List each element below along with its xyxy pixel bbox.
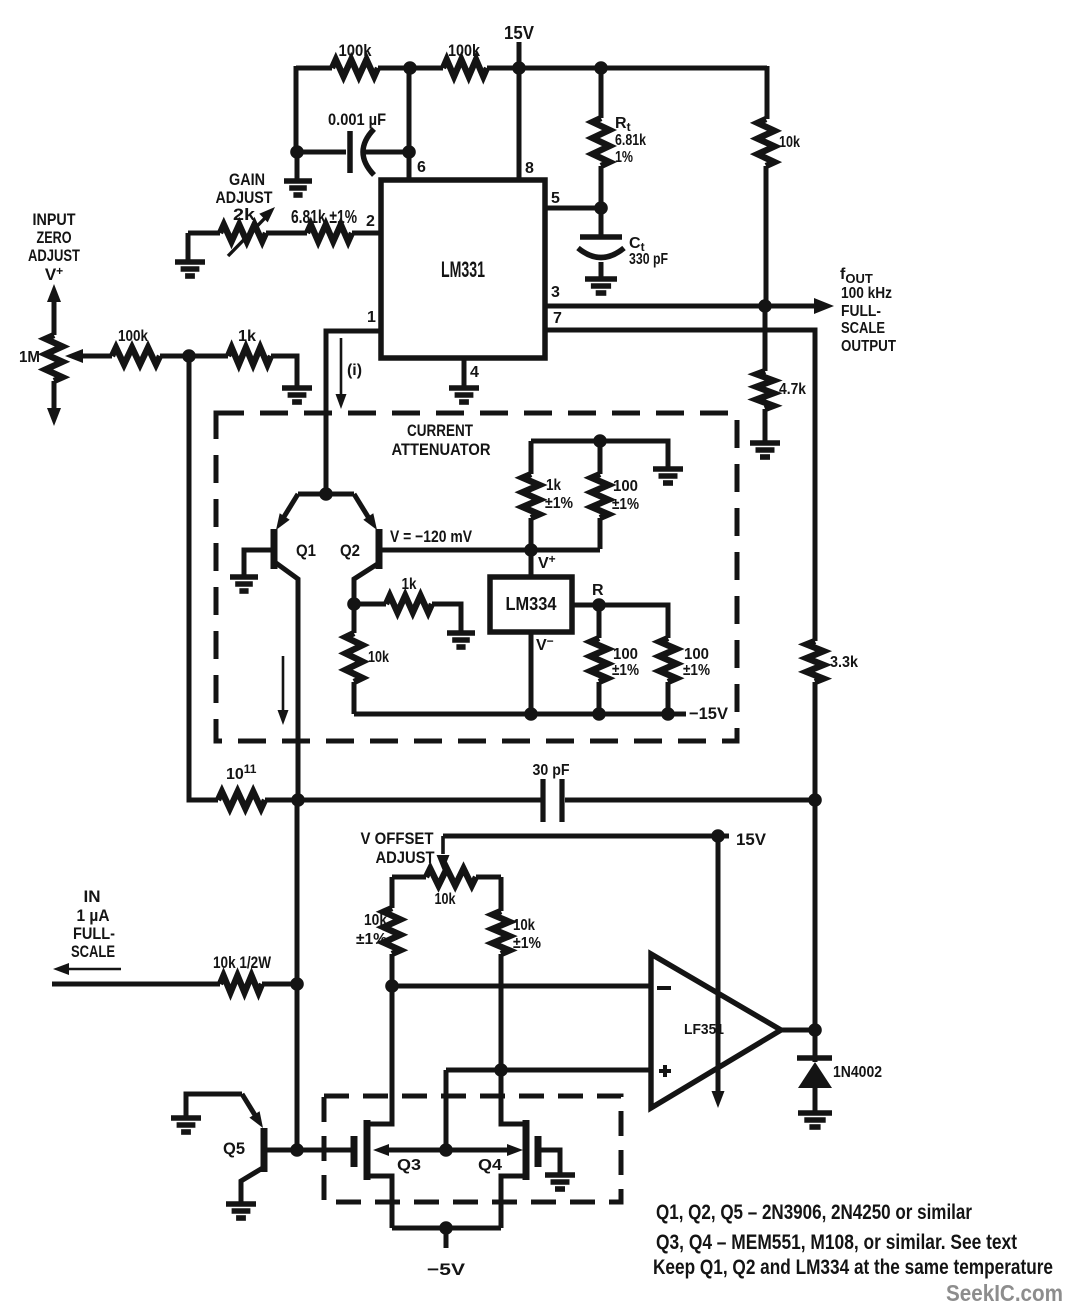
- svg-text:6: 6: [417, 159, 426, 176]
- junction 10^11 node: [291, 793, 305, 807]
- wire -5V rail: [392, 1226, 501, 1231]
- svg-text:10k: 10k: [513, 917, 535, 934]
- ground (Q5 emitter): [171, 1118, 201, 1132]
- wire pin3 fOUT: [545, 304, 765, 309]
- svg-text:FULL-: FULL-: [73, 924, 115, 943]
- ground (1N4002): [798, 1113, 832, 1127]
- label V OFFSET ADJUST: [361, 829, 436, 867]
- junction V+ node: [524, 543, 538, 557]
- junction 30pF-right: [808, 793, 822, 807]
- resistor 6.81k 1%: [291, 207, 357, 242]
- wire noninverting input: [446, 1068, 651, 1073]
- wire opamp V- supply: [712, 836, 725, 1108]
- svg-text:±1%: ±1%: [356, 931, 387, 948]
- svg-text:ADJUST: ADJUST: [28, 246, 80, 265]
- svg-text:4.7k: 4.7k: [779, 381, 806, 398]
- junction V- rail: [524, 707, 538, 721]
- junction Q1Q2 emitters: [319, 487, 333, 501]
- resistor R9 10k (attenuator): [346, 604, 390, 714]
- resistor R2 100k (top-mid): [443, 41, 487, 77]
- wire 1k to ground: [432, 604, 461, 632]
- ground (Q1 base): [230, 577, 258, 591]
- label fOUT: [840, 266, 896, 355]
- svg-text:Q3: Q3: [397, 1157, 421, 1174]
- junction rail-15V: [512, 61, 526, 75]
- svg-text:100k: 100k: [339, 41, 372, 60]
- label IN 1uA FULL-SCALE: [71, 887, 115, 961]
- wire left drop to cap: [296, 66, 346, 152]
- svg-text:GAIN: GAIN: [229, 170, 265, 189]
- label INPUT ZERO ADJUST: [28, 210, 80, 284]
- wire 100k to 1k: [160, 354, 228, 359]
- svg-text:100k: 100k: [118, 328, 148, 345]
- svg-text:(i): (i): [347, 362, 362, 379]
- junction rail-Rt: [594, 61, 608, 75]
- ground (Q4 gate): [545, 1175, 575, 1189]
- svg-text:Q5: Q5: [223, 1139, 245, 1158]
- svg-text:OUTPUT: OUTPUT: [841, 338, 896, 355]
- wire pin6 drop: [407, 68, 412, 180]
- wire attenuator top: [531, 441, 668, 468]
- junction Q5 base node: [290, 1143, 304, 1157]
- wire inverting input: [392, 984, 651, 989]
- svg-text:330 pF: 330 pF: [629, 251, 668, 268]
- resistor R8 1k (Q2): [386, 576, 432, 613]
- wire opamp output: [781, 1028, 815, 1033]
- junction Q2 collector node: [347, 597, 361, 611]
- wire 2k-left: [188, 231, 220, 236]
- svg-text:15V: 15V: [736, 830, 767, 849]
- resistor Rt 6.81k 1%: [593, 68, 647, 208]
- svg-text:±1%: ±1%: [612, 496, 639, 513]
- pin 6 label: [417, 159, 426, 176]
- wire R pin: [572, 605, 668, 638]
- svg-text:6.81k: 6.81k: [615, 132, 646, 149]
- resistor R10 1k 1%: [523, 441, 574, 549]
- svg-text:10k: 10k: [364, 912, 387, 929]
- svg-text:±1%: ±1%: [513, 935, 541, 952]
- wire Q1 collector down: [296, 579, 301, 800]
- wire right vertical to opamp out: [813, 800, 818, 1030]
- potentiometer 1M: [19, 284, 63, 426]
- op-amp U1 LM331 box: [381, 180, 545, 358]
- svg-text:1: 1: [367, 309, 376, 326]
- capacitor C3 30pF: [533, 762, 570, 822]
- wire substrate to +input: [444, 1070, 449, 1150]
- wire pin1: [326, 331, 381, 495]
- junction cap-left: [290, 145, 304, 159]
- pin 1 label: [367, 309, 376, 326]
- resistor R15 10k 1% (left): [356, 877, 401, 986]
- resistor R4 4.7k: [757, 306, 807, 442]
- ground (2k pot): [175, 233, 205, 276]
- transistor Q3 MOSFET: [354, 1120, 446, 1228]
- watermark SeekIC.com: [946, 1280, 1063, 1306]
- svg-text:1k: 1k: [546, 477, 561, 494]
- dashed box Q3Q4: [324, 1096, 621, 1202]
- resistor R11 100 1% (upper): [592, 441, 640, 549]
- power 15V (opamp): [736, 830, 767, 849]
- pin 5 label: [551, 190, 560, 207]
- svg-text:100k: 100k: [448, 41, 480, 60]
- wire 15V offset rail: [443, 834, 729, 839]
- transistor Q5: [186, 1094, 297, 1203]
- ground (1k Q2): [447, 633, 475, 647]
- svg-text:3: 3: [551, 284, 560, 301]
- junction cap-right: [402, 145, 416, 159]
- wiper arrow V offset: [437, 836, 450, 871]
- wire Q5 to Q3 gate: [297, 1148, 352, 1153]
- svg-text:INPUT: INPUT: [33, 210, 77, 229]
- junction fOUT: [758, 299, 772, 313]
- transistor Q2: [340, 494, 379, 604]
- junction 100right rail: [661, 707, 675, 721]
- svg-text:LM331: LM331: [441, 257, 485, 282]
- svg-text:Q3, Q4 – MEM551, M108, or sim: Q3, Q4 – MEM551, M108, or similar. See t…: [656, 1231, 1017, 1254]
- resistor R6 100k (input): [112, 328, 160, 365]
- junction Q3Q4 substrate node: [439, 1143, 453, 1157]
- transistor Q4 MOSFET: [446, 1120, 560, 1228]
- IN direction arrow: [53, 963, 121, 975]
- svg-text:2k: 2k: [233, 205, 256, 224]
- svg-text:Q2: Q2: [340, 541, 360, 560]
- wire emitter bar Q1Q2: [298, 492, 354, 497]
- diode D1 1N4002: [797, 1030, 882, 1112]
- resistor R7 1k (input): [228, 328, 271, 365]
- label V-: [536, 634, 554, 654]
- svg-text:Q1: Q1: [296, 541, 316, 560]
- wire pin8 drop: [517, 68, 522, 180]
- svg-text:100: 100: [613, 478, 638, 495]
- resistor R5 3.3k: [807, 641, 859, 800]
- svg-text:LM334: LM334: [506, 594, 557, 614]
- svg-text:1M: 1M: [19, 349, 40, 366]
- resistor R17 10k 1/2W: [213, 953, 272, 993]
- svg-text:Keep Q1, Q2 and LM334 at the s: Keep Q1, Q2 and LM334 at the same temper…: [653, 1256, 1053, 1279]
- wire 10^11 row: [265, 798, 815, 803]
- current source U2 LM334: [490, 577, 572, 632]
- svg-text:−15V: −15V: [689, 704, 729, 723]
- svg-text:5: 5: [551, 190, 560, 207]
- svg-text:V OFFSET: V OFFSET: [361, 829, 435, 848]
- wire 1k to ground: [271, 356, 297, 387]
- ground (pin 4): [449, 388, 479, 402]
- svg-text:SCALE: SCALE: [841, 320, 885, 337]
- svg-text:1%: 1%: [615, 149, 633, 166]
- pin 8 label: [525, 160, 534, 177]
- resistor R16 10k 1% (right): [493, 877, 542, 1070]
- svg-text:IN: IN: [84, 887, 101, 906]
- svg-text:7: 7: [553, 310, 562, 327]
- svg-text:R: R: [592, 582, 604, 599]
- svg-text:FULL-: FULL-: [841, 303, 881, 320]
- wire V+ node: [531, 548, 600, 553]
- pin 2 label: [366, 213, 375, 230]
- resistor R14 10^11: [218, 762, 265, 809]
- wire Q2 base to V+ node: [379, 548, 531, 553]
- svg-text:1 µA: 1 µA: [77, 906, 110, 925]
- wire -15V rail: [354, 712, 686, 717]
- wire Q3 drain vertical: [369, 986, 392, 1124]
- svg-text:±1%: ±1%: [683, 662, 710, 679]
- junction rail-cap: [403, 61, 417, 75]
- ground (under 0.001uF): [284, 152, 312, 195]
- ground (Q5 collector): [226, 1204, 256, 1218]
- svg-text:Q1, Q2, Q5 – 2N3906, 2N4250 or: Q1, Q2, Q5 – 2N3906, 2N4250 or similar: [656, 1201, 972, 1224]
- wire pin5: [545, 206, 601, 211]
- capacitor 0.001uF: [328, 110, 409, 175]
- pin 7 label: [553, 310, 562, 327]
- svg-text:100: 100: [613, 646, 638, 663]
- label R: [592, 582, 604, 599]
- resistor R1 100k (top-left): [332, 41, 378, 77]
- svg-text:100: 100: [684, 646, 709, 663]
- svg-text:10k: 10k: [779, 134, 800, 151]
- junction opamp output: [808, 1023, 822, 1037]
- wire 10k to node: [262, 982, 297, 987]
- wire IN vertical: [295, 800, 300, 1150]
- svg-text:8: 8: [525, 160, 534, 177]
- resistor R3 10k (top right): [758, 66, 801, 306]
- junction -5V node: [439, 1221, 453, 1235]
- dashed box CURRENT ATTENUATOR: [216, 413, 737, 741]
- svg-text:10k: 10k: [435, 891, 456, 908]
- svg-text:10k 1/2W: 10k 1/2W: [213, 953, 272, 972]
- label V+: [538, 552, 556, 572]
- svg-text:30 pF: 30 pF: [533, 762, 570, 779]
- svg-text:100 kHz: 100 kHz: [841, 285, 892, 302]
- op-amp U3 LF351: [651, 954, 781, 1108]
- junction input-zero node: [182, 349, 196, 363]
- svg-text:15V: 15V: [504, 23, 534, 43]
- note line 1: [656, 1201, 972, 1224]
- junction 100mid rail: [592, 707, 606, 721]
- svg-text:±1%: ±1%: [612, 662, 639, 679]
- wire Q2-1k: [354, 602, 386, 607]
- junction noninverting node: [494, 1063, 508, 1077]
- pin 4 label: [470, 364, 479, 381]
- svg-text:0.001 µF: 0.001 µF: [328, 110, 386, 129]
- wire pin7 to right vertical: [545, 330, 815, 641]
- wiper arrow 1M: [65, 349, 112, 363]
- fOUT output arrow: [765, 298, 834, 314]
- label CURRENT ATTENUATOR: [392, 421, 491, 459]
- junction IN node: [290, 977, 304, 991]
- ground (attenuator top): [653, 469, 683, 483]
- svg-text:V = −120 mV: V = −120 mV: [390, 527, 473, 546]
- svg-text:SeekIC.com: SeekIC.com: [946, 1280, 1063, 1306]
- svg-text:±1%: ±1%: [545, 495, 573, 512]
- svg-text:4: 4: [470, 364, 479, 381]
- svg-text:CURRENT: CURRENT: [407, 421, 473, 440]
- power -15V: [689, 704, 729, 723]
- ground (Ct): [585, 279, 617, 293]
- resistor R12 100 1% (mid): [591, 605, 640, 714]
- current arrow (attenuator): [278, 656, 289, 725]
- power -5V: [427, 1228, 466, 1279]
- label V=-120mV: [390, 527, 473, 546]
- wire IN: [52, 982, 220, 987]
- potentiometer 2k GAIN ADJUST: [216, 170, 276, 256]
- junction inverting node: [385, 979, 399, 993]
- current arrow (i): [336, 338, 363, 409]
- svg-text:10k: 10k: [368, 649, 389, 666]
- svg-text:1k: 1k: [238, 328, 256, 345]
- ground (input 1k): [282, 388, 312, 402]
- svg-text:1N4002: 1N4002: [833, 1064, 882, 1081]
- wire Q4 drain vertical: [501, 1070, 524, 1124]
- svg-text:2: 2: [366, 213, 375, 230]
- junction pin5-Rt: [594, 201, 608, 215]
- svg-text:SCALE: SCALE: [71, 942, 115, 961]
- wire LM334 V+ lead: [529, 550, 534, 577]
- wire top rail: [296, 66, 767, 71]
- wire LM334 V- lead: [529, 632, 534, 714]
- pin 3 label: [551, 284, 560, 301]
- note line 2: [656, 1231, 1017, 1254]
- svg-text:ZERO: ZERO: [37, 228, 72, 247]
- svg-text:6.81k ±1%: 6.81k ±1%: [291, 207, 357, 227]
- svg-text:ATTENUATOR: ATTENUATOR: [392, 440, 491, 459]
- resistor R13 100 1% (right): [660, 638, 711, 714]
- svg-text:−5V: −5V: [427, 1260, 466, 1279]
- junction 100-top: [593, 434, 607, 448]
- wire to pin 2: [352, 231, 381, 236]
- junction 15V opamp: [711, 829, 725, 843]
- wire pin4: [462, 358, 467, 387]
- capacitor Ct 330pF: [578, 208, 668, 278]
- svg-text:ADJUST: ADJUST: [376, 848, 436, 867]
- note line 3: [653, 1256, 1053, 1279]
- ground (4.7k): [750, 443, 780, 457]
- svg-text:3.3k: 3.3k: [830, 654, 858, 671]
- transistor Q1: [244, 494, 316, 581]
- potentiometer 10k (offset): [392, 869, 501, 909]
- power 15V (top): [504, 23, 534, 70]
- svg-text:Q4: Q4: [478, 1157, 502, 1174]
- svg-text:1k: 1k: [402, 576, 417, 593]
- wire left long vertical: [189, 356, 218, 800]
- junction R node: [592, 598, 606, 612]
- wire 2k to 6.81k: [266, 231, 307, 236]
